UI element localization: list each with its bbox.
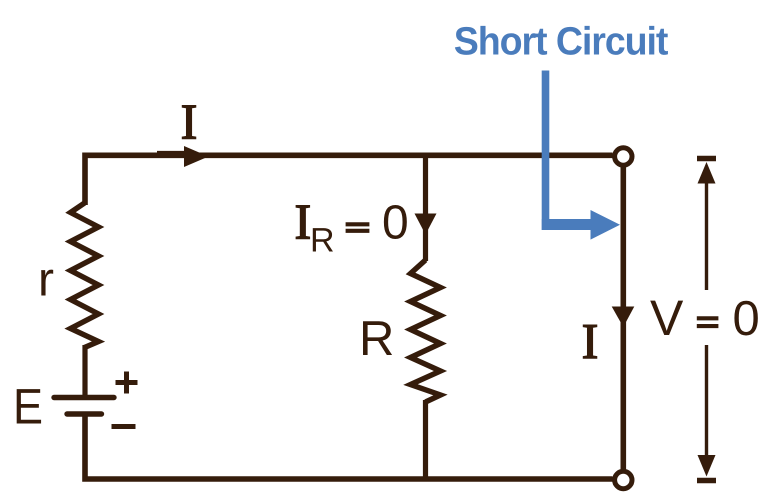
label R (363, 321, 392, 355)
wire: right branch vertical (short-circuit link) (620, 160, 626, 476)
V=0 measure: top T-bar (697, 156, 716, 161)
current arrow I on right branch (head, pointing down) (612, 307, 635, 328)
label I_R = 0 (296, 206, 309, 239)
wire: top wire and left vertical drop to resistor r (85, 155, 613, 205)
current arrow I_R (head, pointing down) (415, 214, 437, 235)
label I (top current) (182, 106, 195, 139)
battery + sign (116, 372, 138, 394)
current arrow I on top wire (tail) (157, 151, 186, 156)
battery E: short negative plate (67, 411, 102, 416)
short-circuit annotation: label (455, 26, 668, 55)
short-circuit annotation: vertical blue line (542, 71, 550, 231)
resistor R (zigzag) (411, 260, 441, 402)
label V = 0 (650, 301, 683, 335)
battery - sign (112, 424, 136, 429)
terminal node: bottom circle (615, 471, 632, 488)
V=0 measure: lower line (705, 345, 708, 457)
wire: middle branch from top wire down to resistor R (423, 156, 428, 262)
V=0 measure: bottom T-bar (697, 478, 716, 483)
wire: resistor r to battery top plate (82, 345, 87, 398)
V=0 measure: down arrowhead (698, 455, 716, 477)
terminal node: top circle (615, 148, 632, 165)
V=0 measure: upper line (705, 182, 708, 290)
current arrow I on top wire (head) (184, 146, 209, 167)
short-circuit annotation: blue arrowhead (591, 210, 621, 240)
short-circuit annotation: horizontal blue shaft (542, 219, 592, 230)
label r (41, 270, 53, 296)
resistor r (zigzag) (71, 203, 99, 348)
label I (right branch current) (583, 325, 596, 358)
wire: resistor R to bottom wire (423, 400, 428, 480)
battery E: long positive plate (54, 395, 114, 400)
wire: battery to bottom-left corner and bottom wire (85, 413, 613, 479)
V=0 measure: up arrowhead (698, 162, 716, 184)
label E (17, 389, 41, 423)
